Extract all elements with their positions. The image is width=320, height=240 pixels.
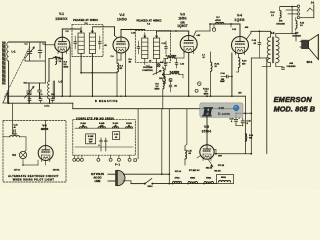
svg-text:560Ω: 560Ω — [206, 178, 211, 180]
oscillator trimmer C-3B — [38, 89, 42, 91]
svg-text:P - 1: P - 1 — [115, 164, 121, 167]
svg-text:R-16C: R-16C — [113, 123, 119, 125]
wire V-3 cathode down — [188, 53, 190, 97]
svg-text:C-1: C-1 — [24, 44, 27, 46]
svg-text:R-16: R-16 — [249, 135, 253, 137]
alt tube top wire — [45, 121, 47, 146]
plug P-1 body — [117, 170, 125, 185]
svg-text:.05: .05 — [149, 61, 152, 63]
svg-text:R-12: R-12 — [270, 12, 274, 14]
svg-text:C-3: C-3 — [23, 83, 26, 85]
T-1 cap C-5 — [74, 41, 77, 43]
svg-text:R-13: R-13 — [300, 23, 304, 25]
wire L-2 bottom — [49, 99, 51, 103]
svg-text:C-3: C-3 — [39, 94, 42, 96]
board resistor R-16D — [126, 127, 133, 129]
svg-text:C-12: C-12 — [180, 64, 184, 66]
resistor R-14 vertical — [185, 150, 187, 159]
svg-text:C-7: C-7 — [146, 66, 149, 68]
wire T-1 primary bottom down — [80, 54, 82, 73]
chassis cap .005 — [282, 67, 285, 69]
wire T-3 bottoms — [270, 63, 272, 67]
resistor R-2 — [53, 57, 60, 59]
pilot light V-6 — [19, 151, 26, 158]
resistor R-9A — [211, 62, 213, 72]
svg-text:600: 600 — [249, 138, 252, 140]
wire screen vertical — [69, 47, 71, 96]
svg-text:R-8 5MEG: R-8 5MEG — [170, 72, 180, 74]
bus B+ horizontal — [8, 95, 246, 97]
svg-text:1Q5G: 1Q5G — [234, 18, 245, 22]
svg-text:VOLUME: VOLUME — [143, 67, 153, 69]
trimmer capacitor C-2 — [38, 50, 42, 52]
svg-text:.005: .005 — [279, 21, 283, 23]
svg-text:C-8: C-8 — [160, 62, 163, 64]
wire osc grid vertical — [48, 58, 50, 81]
tube V-2 — [113, 37, 129, 53]
cap C-7 .05 — [169, 84, 172, 86]
watermark box — [200, 103, 243, 118]
chain resistor 2 — [188, 181, 198, 183]
IF transformer T-2 dashed box — [135, 31, 170, 63]
alt wire top — [12, 103, 14, 134]
vertical from jack — [291, 7, 293, 34]
svg-text:V-4: V-4 — [237, 14, 242, 18]
dots chain — [172, 183, 174, 185]
svg-text:CONTROL: CONTROL — [142, 70, 153, 72]
svg-text:MEG: MEG — [64, 67, 69, 69]
tuning capacitor C-1 — [27, 51, 32, 53]
svg-text:2.2: 2.2 — [271, 15, 274, 17]
filter components on bus 1 — [28, 98, 31, 100]
tube V-3 — [180, 36, 197, 53]
resistor R-10 — [238, 58, 240, 68]
alternate rectifier dashed box — [3, 121, 66, 183]
svg-text:R-16D: R-16D — [126, 123, 132, 125]
bottom right return — [214, 153, 251, 155]
svg-text:.005: .005 — [295, 33, 299, 35]
wire V-3 left pin — [183, 52, 185, 59]
svg-text:MOD. 805 B: MOD. 805 B — [274, 104, 316, 113]
svg-text:C-11: C-11 — [162, 43, 166, 45]
cap C-12b left column — [164, 63, 167, 65]
junction dots on buses — [62, 95, 64, 97]
resistor board dashed box — [73, 120, 136, 156]
wire T-1 secondary bottom down — [91, 54, 93, 97]
wire y58 link — [251, 57, 266, 59]
vertical drop x169.3 — [168, 109, 170, 184]
jack J-1 contacts — [297, 5, 299, 7]
svg-text:WHEN USING PILOT LIGHT: WHEN USING PILOT LIGHT — [13, 179, 55, 182]
small connector square — [134, 159, 137, 162]
svg-text:B NEGATIVE: B NEGATIVE — [95, 100, 118, 103]
wire V-4 grid top — [239, 24, 241, 37]
jack bracket — [313, 5, 315, 18]
resistor R-9 lower — [163, 81, 164, 89]
wire V-1 cathode down — [61, 52, 63, 58]
board rect R-16E — [86, 134, 96, 144]
svg-text:R-5: R-5 — [129, 59, 132, 61]
bus right jog — [235, 109, 237, 114]
svg-text:SP-1: SP-1 — [307, 60, 313, 64]
wire T-2 primary bottom — [144, 59, 146, 65]
loop antenna L-1 bar — [2, 42, 6, 85]
bus left end triangle — [3, 93, 8, 104]
cap C-18 .02 — [258, 42, 261, 44]
svg-text:22: 22 — [128, 125, 130, 127]
vertical drop x138 — [137, 109, 139, 159]
board resistor R-16C — [113, 127, 119, 129]
wire switch to chain — [152, 183, 169, 185]
electrolytic cap C-16A — [235, 113, 237, 119]
speaker cone — [309, 35, 319, 60]
wire plug bottom to switch — [123, 180, 131, 182]
wire grid V-1 — [45, 44, 54, 46]
wire tuning right vertical — [44, 42, 46, 83]
svg-text:R-18: R-18 — [12, 134, 16, 136]
board wire lower — [75, 146, 133, 148]
wire plug top to right — [124, 173, 170, 175]
T-2 secondary winding — [154, 38, 160, 59]
svg-text:30: 30 — [115, 137, 117, 139]
dashed gang coupling line — [5, 47, 30, 97]
svg-text:V-1: V-1 — [59, 12, 64, 16]
board cap box C-21 — [113, 132, 120, 140]
terminal circle X — [157, 64, 160, 67]
svg-text:R-16B: R-16B — [99, 123, 105, 125]
resistor R-16 on B+ drop — [245, 134, 247, 142]
svg-text:OR: OR — [180, 20, 184, 24]
wire V-4 plate to T-3 — [247, 33, 252, 39]
svg-text:.005: .005 — [245, 27, 249, 29]
wire T-3 secondary to speaker — [275, 34, 277, 38]
svg-text:560Ω: 560Ω — [221, 177, 226, 179]
svg-text:35: 35 — [114, 125, 116, 127]
speaker magnet — [301, 40, 309, 49]
wire loop top — [9, 41, 46, 43]
paper grain overlay — [0, 0, 1, 1]
board electrolytic C-19 — [100, 138, 102, 151]
svg-text:35W4: 35W4 — [41, 127, 49, 131]
wire T-2 secondary top to V-3 — [156, 31, 158, 33]
alt resistor R-18 — [10, 135, 20, 137]
tube V-1 — [55, 37, 70, 52]
svg-text:1N5G: 1N5G — [117, 18, 127, 22]
wire gang2 top — [25, 82, 46, 84]
wire V-1 cathode bus — [61, 58, 63, 96]
svg-text:1Q5GT: 1Q5GT — [177, 24, 188, 28]
wire V-3 plate up to top bus — [194, 31, 197, 37]
chain resistor 3 — [204, 181, 214, 183]
svg-text:3.3: 3.3 — [59, 61, 62, 63]
svg-text:680Ω: 680Ω — [190, 178, 195, 180]
svg-text:EMERSON: EMERSON — [274, 95, 313, 104]
svg-text:.05: .05 — [104, 45, 107, 47]
wire T-1 secondary top to V-2 grid — [92, 26, 114, 28]
board resistor R-16A — [80, 127, 88, 129]
svg-text:1B8GX: 1B8GX — [55, 17, 68, 21]
svg-text:C-2: C-2 — [43, 44, 46, 46]
V-5 arrow — [209, 160, 213, 166]
resistor R-13 — [296, 21, 297, 29]
loop antenna coil L-1 — [7, 42, 9, 61]
extra circle terminal mid — [196, 90, 198, 92]
wire plate bus to T-3 primary — [251, 30, 271, 32]
chain box resistor — [217, 175, 234, 184]
svg-text:C-7: C-7 — [202, 55, 205, 57]
oscillator gang capacitor C-3 — [27, 90, 32, 92]
svg-text:am: am — [219, 106, 225, 110]
T-2 primary tuning arrow — [144, 33, 146, 38]
svg-text:1M: 1M — [159, 78, 162, 80]
svg-text:1.1K: 1.1K — [89, 139, 94, 141]
svg-text:1M: 1M — [129, 62, 132, 64]
oscillator coil L-2 — [48, 81, 50, 99]
wire caps bottom bus — [25, 60, 45, 62]
plug P-1 prongs — [108, 173, 115, 175]
svg-text:H: H — [202, 105, 214, 119]
wire top right feed — [280, 6, 297, 8]
vertical drop x161.8 — [161, 109, 163, 174]
jack wires — [286, 9, 297, 11]
wire V-2 screen down — [124, 53, 126, 96]
chain resistor 1 — [173, 181, 182, 183]
svg-text:MEG: MEG — [155, 89, 160, 91]
wire V-5 plate right — [214, 149, 217, 151]
switch terminal circles — [169, 79, 172, 82]
svg-text:PEAKED AT 455KC: PEAKED AT 455KC — [136, 20, 161, 23]
bus B- horizontal — [73, 108, 236, 110]
svg-text:COMPLETE PM NO 38528: COMPLETE PM NO 38528 — [76, 116, 114, 120]
wire V-4 cathode down — [231, 53, 233, 96]
label R-1 grid — [56, 57, 57, 65]
svg-text:C-10: C-10 — [131, 33, 135, 35]
resistor R-8b horizontal — [168, 57, 176, 59]
board top wire — [75, 127, 133, 129]
svg-text:LINE: LINE — [95, 180, 101, 183]
svg-text:R-1: R-1 — [59, 59, 62, 61]
svg-text:PEAKED AT 455KC: PEAKED AT 455KC — [73, 19, 98, 22]
svg-text:C-16: C-16 — [229, 119, 233, 121]
svg-text:T-3: T-3 — [271, 31, 275, 35]
resistor R-3 — [117, 63, 119, 72]
wire T-3 primary top — [270, 31, 272, 37]
heater chain wire — [169, 183, 216, 185]
svg-text:ALTERNATE RECTIFIER CIRCUIT: ALTERNATE RECTIFIER CIRCUIT — [8, 175, 59, 178]
board terminal pins — [73, 155, 75, 158]
left column resistor — [164, 76, 165, 84]
svg-text:MMF: MMF — [220, 81, 225, 83]
potentiometer R-9 with wiper arrow — [163, 68, 165, 78]
svg-text:C-5: C-5 — [65, 31, 68, 33]
board resistor R-16B — [98, 127, 106, 129]
svg-text:il.com: il.com — [218, 112, 230, 116]
electrolytic cap C-16B — [242, 113, 244, 119]
wire caps join — [236, 125, 243, 127]
svg-text:117 VOLTS: 117 VOLTS — [91, 173, 104, 176]
wire AVC line — [81, 72, 117, 74]
wire V-5 cathode left — [197, 156, 201, 159]
wire T-2 secondary bottom — [156, 59, 158, 74]
wire V-1 plate to T-1 — [61, 29, 63, 36]
T-1 primary winding — [78, 33, 84, 54]
long vertical right — [266, 58, 268, 154]
bus B- jog — [72, 103, 74, 109]
cap C-14 200MMF — [226, 75, 228, 78]
wire loop bottom down — [8, 61, 10, 103]
alt tube — [38, 146, 53, 161]
wire V-2 plate top — [120, 30, 122, 36]
T-1 primary tuning arrow — [80, 27, 82, 33]
switch SW-1 — [144, 183, 146, 185]
svg-text:MEG: MEG — [204, 94, 209, 96]
alt wires lower — [22, 159, 24, 165]
svg-text:C-9: C-9 — [110, 56, 113, 58]
wire V-5 anode top — [206, 109, 208, 145]
T-1 secondary winding — [89, 33, 95, 54]
board electrolytic C-20 — [105, 138, 107, 151]
svg-text:AC-DC: AC-DC — [93, 176, 101, 179]
bus B- horizontal left segment — [8, 102, 73, 104]
svg-text:V-3: V-3 — [180, 13, 185, 17]
speaker frame bars — [300, 41, 302, 43]
wire V-2 cathode down — [120, 54, 122, 61]
svg-text:.01: .01 — [202, 57, 205, 59]
svg-text:1.5: 1.5 — [300, 25, 303, 27]
resistor R-12 — [280, 10, 281, 18]
svg-text:C-16: C-16 — [247, 121, 251, 123]
T-1 secondary tuning arrow — [91, 27, 93, 33]
T-2 cap C-9 — [165, 46, 168, 48]
svg-text:C-19: C-19 — [114, 134, 118, 136]
T-2 primary winding — [142, 38, 148, 59]
resistor R-8 — [170, 73, 179, 75]
T-1 cap C-6 — [99, 41, 102, 43]
T-2 cap C-8 — [137, 46, 140, 48]
svg-text:L-1: L-1 — [12, 50, 16, 54]
cap C-12 — [175, 62, 178, 64]
svg-text:R-16E: R-16E — [88, 136, 94, 138]
tube V-5 — [200, 145, 214, 159]
top coupling bus — [210, 23, 240, 25]
watermark blue dot — [233, 105, 239, 111]
svg-text:C-21: C-21 — [14, 125, 18, 127]
tube V-4 — [232, 37, 249, 54]
svg-text:C-13: C-13 — [232, 29, 236, 31]
resistor R-7 — [216, 22, 225, 24]
svg-text:35W4: 35W4 — [202, 130, 212, 134]
IF transformer T-1 dashed box — [72, 24, 103, 56]
T-2 secondary tuning arrow — [156, 33, 158, 38]
speaker return vertical — [250, 58, 252, 154]
grid cap circle — [212, 28, 215, 31]
svg-text:V-2: V-2 — [119, 13, 124, 17]
